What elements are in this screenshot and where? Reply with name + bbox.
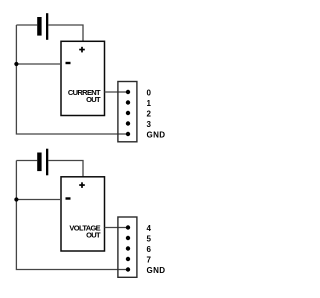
- svg-text:OUT: OUT: [86, 95, 101, 104]
- plus terminal mark: [79, 47, 85, 53]
- wire: battery positive to corner above module: [48, 25, 83, 41]
- wire: battery positive to corner above module: [48, 161, 83, 177]
- svg-text:0: 0: [147, 89, 152, 98]
- wire: module output to connector pin 4: [105, 227, 129, 229]
- capacitor/battery B2: thin positive plate: [46, 149, 48, 176]
- pin 5: [126, 236, 130, 240]
- junction node dot: [14, 197, 18, 201]
- plus terminal mark: [79, 182, 85, 188]
- svg-text:7: 7: [147, 256, 152, 265]
- svg-text:GND: GND: [147, 131, 166, 140]
- pin 4: [126, 225, 130, 229]
- pin GND: [126, 267, 130, 271]
- svg-text:1: 1: [147, 99, 152, 108]
- svg-text:4: 4: [147, 224, 152, 233]
- svg-text:OUT: OUT: [86, 230, 101, 239]
- svg-text:3: 3: [147, 120, 152, 129]
- capacitor/battery B1: thick negative plate: [37, 17, 41, 36]
- wire: left vertical rail + ground run to connector: [16, 25, 128, 134]
- svg-text:6: 6: [147, 245, 152, 254]
- svg-text:GND: GND: [147, 266, 166, 275]
- module U1 box (CURRENT OUT): [61, 41, 105, 115]
- wire: module output to connector pin 0: [105, 91, 129, 93]
- module U2 box (VOLTAGE OUT): [61, 177, 105, 251]
- pin GND: [126, 132, 130, 136]
- wire: junction to module minus input: [16, 63, 61, 65]
- wire: left vertical rail + ground run to connector: [16, 161, 128, 270]
- wire: top rail from rail to battery negative plate: [16, 160, 37, 162]
- pin 2: [126, 111, 130, 115]
- pin 0: [126, 90, 130, 94]
- minus terminal mark: [66, 197, 71, 199]
- wire: top rail from rail to battery negative plate: [16, 24, 37, 26]
- pin 3: [126, 121, 130, 125]
- wire: junction to module minus input: [16, 199, 61, 201]
- svg-text:5: 5: [147, 235, 152, 244]
- junction node dot: [14, 62, 18, 66]
- minus terminal mark: [66, 62, 71, 64]
- capacitor/battery B2: thick negative plate: [37, 153, 41, 172]
- connector J1 body: [118, 82, 137, 142]
- connector J2 body: [118, 217, 137, 277]
- pin 1: [126, 100, 130, 104]
- pin 7: [126, 257, 130, 261]
- pin 6: [126, 246, 130, 250]
- capacitor/battery B1: thin positive plate: [46, 13, 48, 40]
- svg-text:2: 2: [147, 110, 152, 119]
